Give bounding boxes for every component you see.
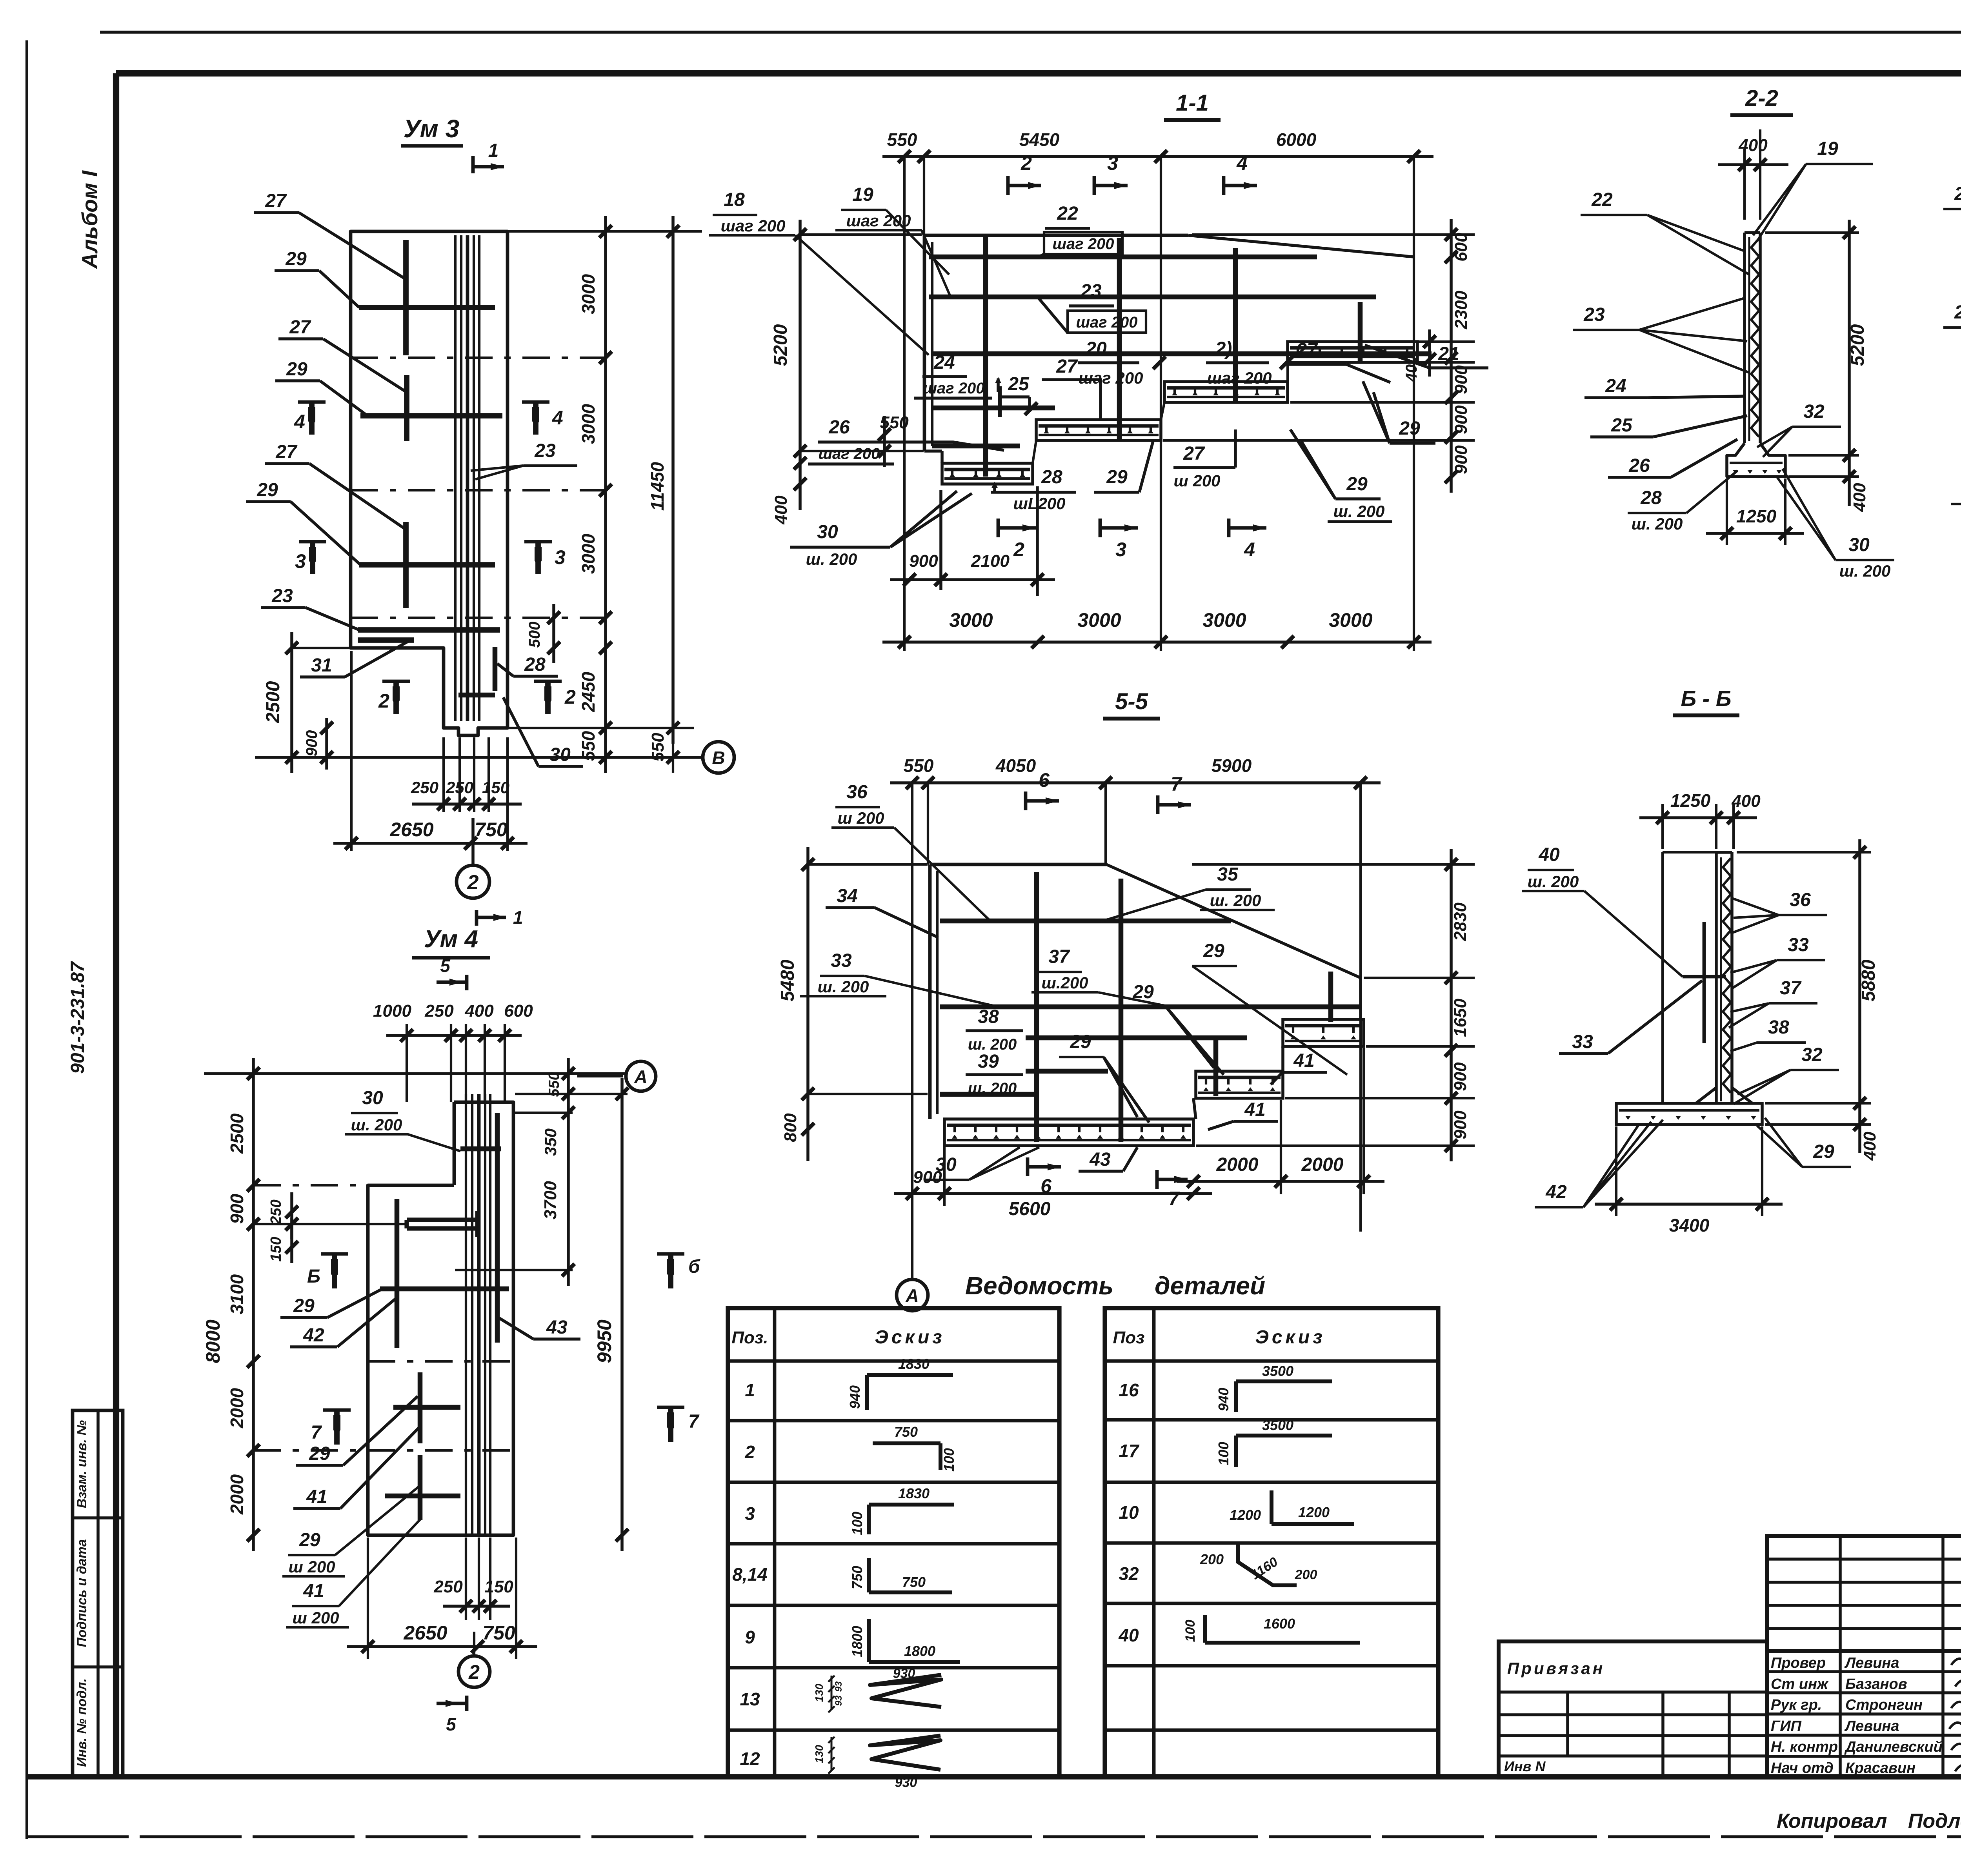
- svg-text:41: 41: [1244, 1099, 1265, 1120]
- title block attach box Привязан: [1499, 1641, 1767, 1778]
- detail sketch pos 10: [1230, 1490, 1354, 1524]
- view 2-2: [1730, 86, 1793, 115]
- svg-text:10: 10: [1119, 1502, 1139, 1523]
- svg-text:ш 200: ш 200: [292, 1609, 339, 1627]
- svg-text:Б: Б: [307, 1266, 320, 1287]
- 5-5 foundation C: [1283, 1019, 1364, 1046]
- Б-Б ghost wall: [1663, 852, 1726, 1103]
- svg-text:21: 21: [1438, 344, 1459, 364]
- svg-text:ш 200: ш 200: [288, 1558, 335, 1576]
- svg-text:б: б: [688, 1256, 700, 1277]
- svg-text:5200: 5200: [1847, 324, 1868, 366]
- Um4 anchor T bar: [407, 1211, 478, 1237]
- svg-text:250: 250: [268, 1199, 284, 1225]
- svg-text:1250: 1250: [1736, 506, 1777, 526]
- 2-2 leader 30 ш 200: [1777, 469, 1894, 580]
- svg-text:ш. 200: ш. 200: [351, 1115, 402, 1134]
- svg-text:1830: 1830: [898, 1485, 930, 1501]
- view Um4 title: [412, 926, 490, 958]
- 5-5 bottom dims 2000 2000: [1177, 1048, 1384, 1194]
- svg-text:100: 100: [849, 1512, 865, 1535]
- svg-text:Инв N: Инв N: [1504, 1758, 1546, 1774]
- svg-text:38: 38: [1768, 1017, 1789, 1038]
- svg-text:23: 23: [271, 586, 293, 606]
- Um3 bottom dims 2650 750: [333, 651, 528, 851]
- svg-text:3000: 3000: [578, 533, 598, 574]
- svg-text:24: 24: [1605, 376, 1626, 397]
- svg-text:6000: 6000: [1276, 129, 1317, 150]
- svg-text:5200: 5200: [770, 324, 791, 366]
- svg-text:2500: 2500: [227, 1113, 247, 1154]
- Um3 rebar 29 horizontal bars: [359, 308, 502, 565]
- svg-text:3000: 3000: [1329, 609, 1372, 631]
- Um3 inner dimension chain 3000x3+2450: [578, 216, 612, 773]
- detail sketch pos 32: [1200, 1544, 1317, 1585]
- 5-5 foundation B: [1196, 1071, 1283, 1098]
- 1-1 foundation step 2: [1036, 420, 1161, 440]
- title block signatures: [1949, 1656, 1961, 1771]
- svg-text:3: 3: [1107, 152, 1118, 174]
- svg-text:3: 3: [555, 546, 566, 568]
- 5-5 leader 29 c: [1059, 1032, 1149, 1123]
- svg-text:шаг 200: шаг 200: [721, 217, 786, 235]
- details table left pos numbers: [732, 1380, 768, 1769]
- svg-text:41: 41: [306, 1487, 327, 1507]
- svg-text:130: 130: [813, 1745, 825, 1763]
- details table right frame: [1105, 1308, 1438, 1777]
- svg-text:500: 500: [526, 622, 543, 648]
- svg-text:ш. 200: ш. 200: [806, 550, 857, 568]
- Um3 section mark 1 top: [473, 140, 504, 173]
- svg-text:2: 2: [467, 871, 479, 894]
- svg-text:350: 350: [541, 1128, 560, 1156]
- svg-text:5600: 5600: [1009, 1199, 1051, 1219]
- 1-1 section flags top 2 3 4: [1008, 152, 1257, 195]
- left margin stamp table: [73, 1410, 123, 1777]
- 1-1 leader 21 far right: [1365, 344, 1488, 368]
- svg-text:ш. 200: ш. 200: [818, 977, 869, 996]
- svg-text:27: 27: [275, 442, 298, 462]
- Um4 rebar 42 bar vertical: [395, 1199, 400, 1348]
- view 1-1 title: [1164, 90, 1221, 120]
- svg-text:шаг 200: шаг 200: [818, 445, 880, 462]
- svg-text:100: 100: [1183, 1620, 1198, 1642]
- 1-1 leader 27 upper right: [1288, 340, 1390, 382]
- svg-text:16: 16: [1119, 1380, 1139, 1400]
- svg-text:26: 26: [828, 417, 850, 438]
- svg-text:2450: 2450: [578, 671, 598, 712]
- svg-text:33: 33: [1788, 935, 1809, 955]
- svg-text:1: 1: [745, 1380, 755, 1400]
- svg-text:3: 3: [745, 1503, 755, 1524]
- svg-text:Поз.: Поз.: [731, 1328, 768, 1347]
- 1-1 vertical rebar bars: [986, 235, 1360, 477]
- Um3 section T-marks 2: [378, 681, 576, 714]
- Б-Б foundation: [1616, 1088, 1762, 1125]
- svg-text:ш. 200: ш. 200: [1632, 515, 1683, 533]
- svg-text:7: 7: [311, 1422, 322, 1443]
- svg-text:1200: 1200: [1298, 1504, 1330, 1520]
- view 5-5 title: [1103, 689, 1160, 719]
- svg-text:Рук гр.: Рук гр.: [1771, 1697, 1822, 1713]
- svg-text:36: 36: [846, 782, 868, 802]
- svg-text:930: 930: [895, 1775, 917, 1790]
- svg-text:3500: 3500: [1262, 1417, 1293, 1433]
- svg-text:900: 900: [303, 730, 320, 757]
- svg-text:250: 250: [424, 1001, 454, 1021]
- outer trim border top: [100, 31, 1961, 34]
- svg-text:2650: 2650: [389, 819, 433, 841]
- 5-5 rebar 33 37 bar: [940, 1004, 1360, 1010]
- 5-5 bottom dims 900 5600: [894, 1147, 1212, 1219]
- svg-text:29: 29: [1813, 1141, 1834, 1162]
- svg-text:17: 17: [1119, 1441, 1140, 1461]
- svg-text:2: 2: [564, 686, 576, 708]
- svg-text:1800: 1800: [904, 1643, 935, 1659]
- svg-text:31: 31: [311, 655, 332, 676]
- 1-1 leader 19 шаг 200: [835, 184, 951, 298]
- 1-1 rebar 23 bar: [929, 295, 1376, 300]
- svg-text:1830: 1830: [898, 1356, 930, 1372]
- svg-text:Инв. № подл.: Инв. № подл.: [75, 1678, 89, 1767]
- Um4 leader 41 ш 200 d: [286, 1518, 422, 1627]
- Б-Б leader 36: [1730, 890, 1827, 933]
- Um4 section b mark right: [657, 1254, 700, 1288]
- svg-text:А: А: [905, 1285, 919, 1306]
- Um3 left dimension 900: [303, 718, 333, 770]
- svg-text:3000: 3000: [578, 404, 598, 444]
- svg-text:27: 27: [289, 317, 311, 338]
- svg-text:8,14: 8,14: [732, 1564, 768, 1585]
- 5-5 leader 33 ш. 200: [800, 950, 998, 1007]
- 5-5 step connectors: [1193, 978, 1361, 1119]
- Um4 rebar 30 bar top: [460, 1146, 501, 1152]
- Um4 section 7 mark left: [311, 1410, 351, 1445]
- svg-text:600: 600: [1452, 233, 1471, 262]
- svg-text:2): 2): [1215, 338, 1232, 359]
- svg-text:30: 30: [362, 1088, 383, 1108]
- svg-text:Ум 4: Ум 4: [424, 926, 478, 953]
- Б-Б leader 29: [1757, 1118, 1851, 1167]
- Um4 section mark 5 bottom: [437, 1696, 467, 1734]
- svg-text:940: 940: [847, 1385, 863, 1409]
- svg-text:6: 6: [1039, 769, 1050, 791]
- Б-Б leader 40 ш 200: [1522, 844, 1683, 977]
- svg-text:29: 29: [299, 1530, 320, 1550]
- svg-text:Провер: Провер: [1771, 1655, 1826, 1671]
- svg-text:150: 150: [484, 1577, 513, 1596]
- svg-text:750: 750: [902, 1574, 926, 1590]
- 1-1 leader 18 шаг 200: [709, 189, 929, 355]
- svg-text:1-1: 1-1: [1176, 90, 1209, 116]
- svg-text:2000: 2000: [227, 1388, 247, 1428]
- svg-text:3700: 3700: [541, 1181, 560, 1219]
- svg-text:200: 200: [1200, 1551, 1224, 1567]
- Um4 section 7 mark right: [657, 1407, 700, 1442]
- svg-text:900: 900: [1452, 405, 1471, 434]
- Um3 rebar 31 bar: [358, 637, 414, 643]
- 1-1 rebar 26 bar: [932, 444, 1020, 449]
- svg-text:800: 800: [781, 1113, 800, 1142]
- svg-text:Стронгин: Стронгин: [1845, 1697, 1923, 1713]
- 2-2 foundation: [1727, 443, 1785, 477]
- svg-text:42: 42: [303, 1325, 324, 1346]
- 1-1 leader 27 over F2: [1042, 356, 1102, 419]
- Um4 axis circle 2 top: [0, 0, 0, 0]
- detail sketch pos 13: [813, 1666, 941, 1712]
- svg-text:750: 750: [894, 1424, 918, 1440]
- Um4 section B mark left: [307, 1254, 348, 1288]
- svg-text:ш. 200: ш. 200: [968, 1080, 1017, 1097]
- 1-1 wall outline: [924, 235, 1414, 463]
- title block names text: [1771, 1655, 1943, 1776]
- Б-Б leader 32: [1734, 1044, 1839, 1104]
- Um3 wall face lines: [455, 235, 479, 721]
- svg-text:22: 22: [1954, 184, 1961, 204]
- svg-text:13: 13: [740, 1689, 760, 1709]
- svg-text:ш 200: ш 200: [1173, 471, 1220, 490]
- svg-text:39: 39: [978, 1051, 999, 1072]
- 1-1 leader 28 шL 200: [991, 467, 1076, 513]
- svg-text:22: 22: [1057, 203, 1078, 224]
- svg-text:3400: 3400: [1669, 1215, 1710, 1236]
- 1-1 bottom dims 3000 x4: [882, 609, 1432, 648]
- details table right header: [1113, 1327, 1326, 1348]
- svg-text:1250: 1250: [1670, 790, 1711, 811]
- 2-2 leader 28 ш 200: [1628, 471, 1737, 533]
- 1-1 leader 22 шаг 200: [1037, 203, 1122, 258]
- svg-text:5-5: 5-5: [1115, 689, 1148, 714]
- title block names grid: [1767, 1651, 1961, 1778]
- svg-text:400: 400: [1860, 1132, 1879, 1161]
- 5-5 axis circle A bottom: [897, 1275, 928, 1311]
- Um3 ground line with axis B: [255, 742, 734, 773]
- Um4 rebar 43 bar vertical: [495, 1113, 500, 1343]
- svg-text:93: 93: [833, 1695, 844, 1706]
- Um3 outer dimension chain 11450: [647, 216, 679, 773]
- svg-text:30: 30: [817, 522, 838, 542]
- 2-2 bottom dim 1250: [1706, 479, 1804, 545]
- svg-text:24: 24: [933, 352, 955, 373]
- Um4 dashed lines: [253, 1185, 513, 1450]
- 1-1 leader 21 шаг 200 mid: [1206, 338, 1293, 387]
- svg-text:5480: 5480: [777, 959, 798, 1001]
- svg-text:3000: 3000: [578, 274, 598, 314]
- svg-text:7: 7: [1168, 1188, 1180, 1210]
- svg-text:150: 150: [268, 1237, 284, 1261]
- svg-text:23: 23: [1583, 304, 1605, 325]
- svg-text:2650: 2650: [403, 1622, 447, 1644]
- svg-text:7: 7: [1171, 773, 1182, 795]
- Um3 left dimension 2500: [263, 632, 349, 773]
- svg-text:5880: 5880: [1858, 959, 1879, 1001]
- 1-1 rebar 22 bar: [929, 255, 1317, 260]
- 5-5 rebar 39 bar: [1026, 1069, 1108, 1074]
- svg-text:32: 32: [1803, 401, 1825, 422]
- svg-text:20: 20: [1085, 338, 1107, 359]
- svg-text:3000: 3000: [1077, 609, 1121, 631]
- svg-text:40: 40: [1118, 1625, 1139, 1645]
- svg-text:400: 400: [464, 1001, 494, 1021]
- svg-text:2300: 2300: [1452, 291, 1471, 329]
- 1-1 leader 29 ш 200 right: [1290, 429, 1392, 522]
- 5-5 leader 29 b: [1122, 982, 1224, 1075]
- svg-text:3: 3: [1115, 539, 1126, 560]
- Um3 leader label 23 right: [471, 440, 577, 479]
- Um3 wall plan outline: [351, 231, 508, 735]
- svg-text:2000: 2000: [1216, 1154, 1259, 1175]
- svg-text:Подлевская: Подлевская: [1908, 1810, 1961, 1832]
- Um4 rebar 29 41 bar c: [385, 1494, 460, 1499]
- svg-text:29: 29: [1070, 1032, 1091, 1052]
- 1-1 foundation step 4: [1288, 342, 1417, 362]
- detail sketch pos 40: [1183, 1615, 1360, 1643]
- svg-text:ш 200: ш 200: [837, 809, 884, 827]
- svg-text:Н. контр: Н. контр: [1771, 1739, 1838, 1755]
- svg-text:Альбом I: Альбом I: [77, 170, 102, 269]
- svg-text:26: 26: [1628, 455, 1650, 476]
- svg-text:901-3-231.87: 901-3-231.87: [67, 961, 88, 1074]
- svg-text:3500: 3500: [1262, 1363, 1293, 1379]
- Um4 leader 29 ш 200 c: [282, 1487, 419, 1576]
- Um4 top dims 1000 250 400 600: [373, 1001, 533, 1102]
- svg-text:32: 32: [1119, 1563, 1139, 1584]
- svg-text:1000: 1000: [373, 1001, 411, 1021]
- svg-text:28: 28: [1640, 488, 1662, 508]
- svg-text:4: 4: [1236, 152, 1248, 174]
- svg-text:150: 150: [482, 778, 509, 797]
- 1-1 top dimension 550 5450 6000: [882, 129, 1433, 651]
- 1-1 foundation step 3: [1164, 382, 1288, 402]
- svg-text:33: 33: [1572, 1032, 1593, 1052]
- svg-text:ш.200: ш.200: [1041, 973, 1088, 992]
- svg-text:400: 400: [1738, 136, 1768, 155]
- Um4 left small dims 250 150: [253, 1192, 407, 1263]
- Um3 rebar 27 vertical segments: [406, 240, 407, 608]
- details table left frame: [728, 1308, 1059, 1777]
- svg-text:23: 23: [1080, 281, 1102, 302]
- svg-text:30: 30: [1848, 535, 1870, 555]
- Um4 axis circle 2 bottom: [458, 1632, 490, 1687]
- svg-text:250: 250: [411, 778, 438, 797]
- Б-Б wall: [1716, 852, 1732, 1103]
- 1-1 leader 20 шаг 200: [1078, 338, 1166, 387]
- 1-1 leader 27 ш 200 mid: [1173, 429, 1235, 490]
- 1-1 left dimension 5200 400: [770, 220, 924, 525]
- svg-text:250: 250: [446, 778, 473, 797]
- svg-text:1200: 1200: [1230, 1507, 1261, 1523]
- svg-text:3000: 3000: [949, 609, 993, 631]
- svg-text:130: 130: [813, 1683, 825, 1702]
- svg-text:3: 3: [295, 550, 306, 572]
- 2-2 leader 22: [1581, 189, 1749, 275]
- svg-text:Базанов: Базанов: [1845, 1676, 1907, 1692]
- details list heading: [965, 1272, 1265, 1300]
- svg-text:29: 29: [1399, 418, 1420, 439]
- svg-text:400: 400: [771, 495, 791, 525]
- Um3 rebar 28 bar: [493, 647, 498, 691]
- svg-text:27: 27: [265, 191, 287, 211]
- 5-5 section flags bottom 6 7: [1028, 1157, 1188, 1210]
- 5-5 rebar 38 bar: [1026, 1035, 1247, 1041]
- svg-text:1800: 1800: [849, 1626, 865, 1657]
- Um4 left dimension chain 2500 900 3100 2000 2000: [202, 1058, 455, 1551]
- svg-text:37: 37: [1780, 978, 1802, 999]
- 5-5 vertical rebars: [1037, 872, 1331, 1142]
- 1-1 section flags bottom 2 3 4: [998, 519, 1266, 560]
- detail sketch pos 3: [849, 1485, 954, 1535]
- svg-text:400: 400: [1850, 483, 1869, 512]
- Б-Б leader 37: [1729, 978, 1817, 1028]
- svg-text:Нач отд: Нач отд: [1771, 1760, 1834, 1776]
- svg-text:28: 28: [524, 654, 546, 675]
- svg-text:750: 750: [475, 819, 508, 841]
- svg-text:Б - Б: Б - Б: [1681, 686, 1731, 711]
- svg-text:37: 37: [1048, 946, 1070, 967]
- Um4 wall top edge closure: [453, 1102, 456, 1185]
- svg-text:4: 4: [552, 407, 563, 429]
- Um3 section T-marks 4: [294, 402, 563, 435]
- svg-text:4050: 4050: [995, 755, 1036, 776]
- svg-text:5900: 5900: [1212, 755, 1252, 776]
- svg-text:2: 2: [744, 1442, 755, 1462]
- svg-text:23: 23: [1954, 302, 1961, 323]
- 5-5 top dimension 550 4050 5900: [890, 755, 1381, 1275]
- Um4 section mark 1 top: [477, 907, 523, 928]
- svg-text:ш. 200: ш. 200: [1210, 891, 1261, 910]
- 2-2 wall: [1745, 233, 1760, 443]
- svg-text:7: 7: [688, 1411, 700, 1432]
- Um3 bay boundary dashed lines: [351, 358, 613, 618]
- svg-text:19: 19: [1817, 138, 1838, 159]
- svg-text:29: 29: [285, 249, 307, 269]
- svg-text:9: 9: [745, 1627, 755, 1647]
- svg-text:4: 4: [1244, 539, 1255, 560]
- svg-text:деталей: деталей: [1155, 1272, 1265, 1300]
- svg-text:2830: 2830: [1451, 903, 1470, 941]
- 3-3 leader 23: [1943, 294, 1961, 369]
- Б-Б top dim 1250 400: [1639, 790, 1761, 849]
- svg-text:38: 38: [978, 1006, 999, 1027]
- svg-text:Ст инж: Ст инж: [1771, 1676, 1829, 1692]
- svg-text:шаг 200: шаг 200: [923, 380, 984, 397]
- detail sketch pos 8,14: [849, 1558, 952, 1592]
- svg-text:ш. 200: ш. 200: [1528, 872, 1579, 891]
- 1-1 leader 24 шаг200: [914, 352, 1001, 398]
- svg-text:27: 27: [1296, 340, 1318, 360]
- svg-text:550: 550: [546, 1072, 562, 1097]
- Um3 axis circle 2 bottom: [457, 818, 489, 898]
- Б-Б leader 33 right: [1730, 935, 1825, 988]
- 1-1 leader 26 шаг 200: [808, 417, 1004, 464]
- svg-text:1: 1: [513, 907, 523, 928]
- svg-text:Взам. инв. №: Взам. инв. №: [75, 1420, 89, 1508]
- svg-text:5450: 5450: [1019, 129, 1060, 150]
- svg-text:940: 940: [1215, 1388, 1232, 1411]
- svg-text:42: 42: [1545, 1182, 1567, 1203]
- svg-text:Ведомость: Ведомость: [965, 1272, 1113, 1300]
- svg-text:12: 12: [740, 1749, 760, 1769]
- detail sketch pos 9: [849, 1619, 960, 1662]
- svg-text:3100: 3100: [227, 1274, 247, 1314]
- svg-text:30: 30: [549, 744, 571, 765]
- Um4 bottom dims 250 150: [433, 1538, 513, 1620]
- svg-text:29: 29: [309, 1443, 330, 1464]
- svg-text:32: 32: [1801, 1044, 1823, 1065]
- svg-text:шL200: шL200: [1013, 494, 1065, 513]
- svg-text:4: 4: [294, 411, 305, 433]
- Um3 rebar 23 bar: [358, 627, 500, 633]
